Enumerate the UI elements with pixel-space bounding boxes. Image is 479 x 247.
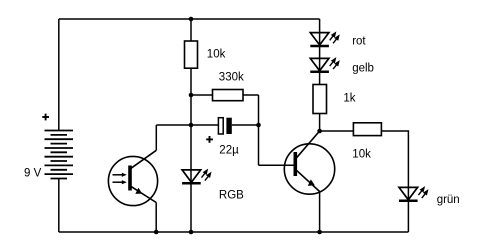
svg-text:grün: grün bbox=[437, 194, 460, 206]
svg-text:1k: 1k bbox=[343, 92, 355, 104]
svg-text:10k: 10k bbox=[352, 148, 371, 160]
svg-text:RGB: RGB bbox=[219, 190, 244, 202]
svg-text:22µ: 22µ bbox=[219, 145, 239, 157]
svg-text:gelb: gelb bbox=[352, 62, 374, 74]
svg-text:9 V: 9 V bbox=[24, 168, 42, 180]
svg-text:330k: 330k bbox=[219, 72, 244, 84]
svg-text:10k: 10k bbox=[207, 49, 226, 61]
svg-text:rot: rot bbox=[352, 35, 366, 47]
